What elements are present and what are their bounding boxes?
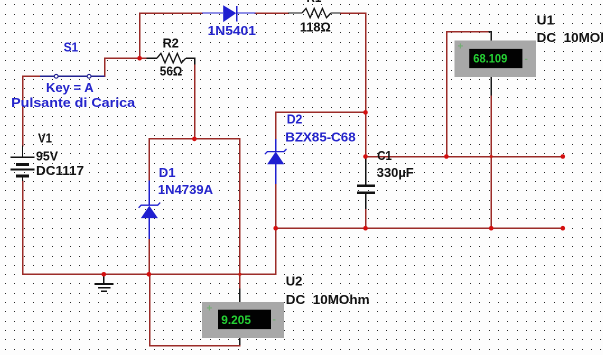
node U1 branch — [444, 154, 449, 159]
svg-text:+: + — [458, 42, 464, 53]
capacitor C1 — [357, 157, 375, 229]
multimeter U1 — [455, 41, 537, 78]
svg-text:C1: C1 — [377, 148, 392, 163]
wire R2 left node stub — [140, 57, 147, 59]
svg-text:-: - — [525, 54, 528, 65]
wire crossing highlight (U2 plus over return wire) — [239, 273, 242, 276]
svg-text:1N5401: 1N5401 — [208, 23, 256, 38]
wire switch to R2 node — [105, 58, 140, 76]
svg-text:Key = A: Key = A — [46, 80, 94, 95]
wire up to U1 + — [447, 32, 489, 157]
diode 1N5401 — [202, 5, 255, 22]
wire U2 - to return rail — [239, 338, 241, 346]
multimeter U2 — [202, 302, 284, 338]
svg-text:56Ω: 56Ω — [160, 64, 183, 79]
node U1 minus — [489, 226, 494, 231]
svg-text:D1: D1 — [159, 165, 176, 180]
svg-text:U1: U1 — [537, 12, 555, 27]
svg-text:118Ω: 118Ω — [300, 20, 331, 35]
wire down to U2 + — [239, 139, 241, 289]
node ground rail start — [273, 226, 278, 231]
node ground — [102, 272, 107, 277]
wire down to D1 — [148, 139, 150, 181]
svg-text:R2: R2 — [163, 36, 179, 51]
svg-text:BZX85-C68: BZX85-C68 — [285, 129, 355, 144]
wire branch to D2 — [276, 112, 366, 139]
wire node to right end y=156.3 — [366, 156, 563, 158]
svg-text:DC 10MOhm: DC 10MOhm — [537, 30, 603, 45]
svg-text:DC 10MOhm: DC 10MOhm — [286, 292, 370, 307]
svg-text:+: + — [207, 304, 213, 315]
wire vertical x=365.5 top to node — [365, 13, 367, 157]
svg-text:-: - — [273, 315, 276, 326]
node wire end top right — [561, 154, 566, 159]
node R2-bottom row — [192, 137, 197, 142]
wire node up to top rail — [139, 13, 141, 58]
node D2 branch — [363, 110, 368, 115]
wire D2 anode down and battery return — [23, 184, 276, 274]
resistor R1 118Ohm — [288, 8, 341, 17]
node C1 top — [363, 154, 368, 159]
svg-text:95V: 95V — [36, 149, 58, 164]
battery V1 — [11, 146, 35, 182]
svg-text:9.205: 9.205 — [221, 315, 251, 327]
svg-text:S1: S1 — [64, 40, 79, 55]
wire R2 right down to node — [194, 65, 196, 139]
svg-text:1N4739A: 1N4739A — [158, 182, 214, 197]
wire U1 - down to ground rail — [490, 77, 492, 96]
svg-text:330µF: 330µF — [377, 165, 414, 180]
node R2-left/S1/top — [137, 56, 142, 61]
wire crossing highlight (U1 minus over node wire) — [490, 155, 493, 158]
svg-text:R1: R1 — [307, 0, 322, 5]
switch S1 — [40, 74, 105, 78]
svg-text:DC1117: DC1117 — [36, 163, 84, 178]
node wire end bottom right — [561, 226, 566, 231]
node D1 bottom — [147, 272, 152, 277]
node C1 bottom — [363, 226, 368, 231]
wire ground rail y=228.2 — [276, 227, 563, 229]
svg-text:U2: U2 — [286, 274, 303, 289]
wire battery top to switch — [22, 181, 24, 274]
zener diode D1 — [139, 181, 161, 240]
svg-text:68.109: 68.109 — [473, 54, 507, 66]
ground — [95, 274, 114, 291]
svg-text:Pulsante di Carica: Pulsante di Carica — [11, 95, 136, 110]
wire D1 anode to return rail — [148, 239, 150, 274]
resistor R2 56Ohm — [146, 53, 194, 64]
zener diode D2 — [265, 139, 287, 184]
wire node row y=138.9 — [149, 138, 240, 140]
svg-text:V1: V1 — [38, 131, 52, 146]
svg-text:D2: D2 — [287, 112, 303, 127]
